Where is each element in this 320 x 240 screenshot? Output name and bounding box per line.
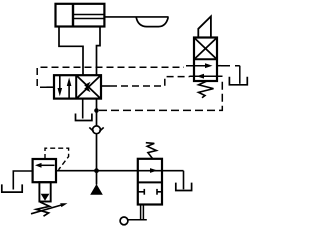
sequence valve blocked ports — [138, 189, 162, 195]
exhaust port bracket top right — [229, 77, 247, 85]
sequence valve outlet wire to exhaust — [183, 171, 185, 190]
roller valve cam wedge — [198, 16, 211, 37]
valve right position crossed arrows — [77, 76, 100, 98]
relief valve spring — [36, 202, 49, 216]
sequence valve flow arrow — [150, 168, 158, 173]
roller valve closed position cross — [195, 39, 216, 59]
sequence valve body — [138, 159, 162, 205]
exhaust port bracket bottom right — [176, 183, 192, 191]
pilot line right dashed — [110, 77, 190, 86]
cylinder body — [56, 4, 105, 27]
junction A dot — [94, 108, 99, 113]
wire valve bottom to junction A — [96, 99, 98, 111]
sequence valve spring — [146, 143, 157, 159]
roller valve right flow arrow — [186, 63, 213, 68]
4/2 directional valve body — [54, 75, 101, 98]
roller valve return spring — [199, 81, 214, 98]
exhaust port bracket under valve — [76, 114, 92, 121]
relief valve poppet triangle — [41, 194, 50, 201]
junction B dot — [94, 168, 99, 173]
roller valve left flow arrow — [190, 74, 223, 79]
pilot line left dashed — [37, 67, 184, 87]
exhaust port bracket bottom left — [2, 184, 22, 192]
roller valve exhaust wire — [217, 66, 240, 84]
check valve ball — [93, 126, 101, 134]
sequence valve drain stem — [128, 205, 147, 220]
valve exhaust stem — [82, 99, 84, 119]
main supply line — [56, 170, 184, 172]
relief valve flow arrow — [35, 163, 55, 168]
cylinder piston rod — [74, 15, 169, 19]
valve left pilot stub — [47, 86, 55, 88]
cylinder piston — [72, 4, 74, 26]
wire junction B to source — [96, 171, 98, 185]
drain port circle — [120, 217, 128, 225]
pressure source triangle — [90, 184, 103, 195]
wire cylinder left port to valve — [59, 27, 83, 76]
cam follower plate on rod — [136, 17, 168, 26]
valve right pilot stub — [101, 85, 110, 87]
relief valve body — [33, 159, 56, 182]
wire check valve to junction B — [96, 134, 98, 171]
valve left position down arrow — [58, 76, 63, 96]
dashed supply branch to roller valve — [99, 78, 222, 110]
relief valve lower block — [39, 182, 50, 201]
wire junction A to check valve — [96, 111, 98, 127]
relief valve pilot dashed loop — [45, 148, 69, 170]
roller valve body — [194, 38, 217, 82]
wire cylinder right port to valve — [97, 27, 101, 76]
relief valve outlet wire — [13, 171, 32, 190]
check valve seat — [89, 127, 103, 131]
relief valve adjusting arrow — [31, 203, 68, 214]
valve left position up arrow — [67, 78, 72, 98]
